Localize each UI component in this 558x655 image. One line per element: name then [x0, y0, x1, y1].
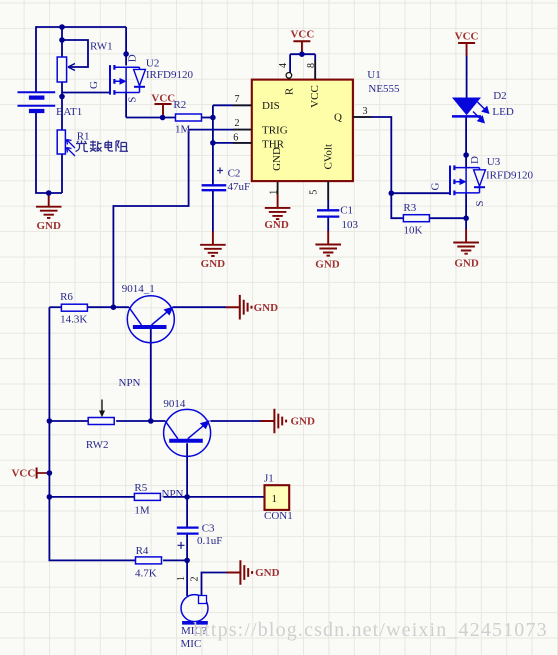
svg-text:0.1uF: 0.1uF: [197, 535, 222, 547]
svg-text:VCC: VCC: [309, 85, 321, 108]
svg-text:10K: 10K: [404, 225, 423, 237]
svg-text:1M: 1M: [175, 123, 191, 135]
svg-text:NPN: NPN: [162, 488, 184, 500]
svg-text:U3: U3: [487, 156, 501, 168]
svg-text:Q: Q: [334, 112, 342, 124]
svg-text:C1: C1: [340, 205, 353, 217]
svg-text:GND: GND: [36, 220, 61, 232]
svg-text:LED: LED: [492, 106, 513, 118]
svg-text:VCC: VCC: [151, 92, 175, 104]
svg-text:CON1: CON1: [264, 510, 293, 522]
svg-text:DIS: DIS: [262, 100, 280, 112]
svg-text:9014_1: 9014_1: [122, 283, 155, 295]
svg-text:https://blog.csdn.net/weixin_4: https://blog.csdn.net/weixin_42451073: [193, 619, 548, 641]
svg-text:R6: R6: [60, 291, 73, 303]
svg-text:5: 5: [308, 190, 319, 195]
svg-text:RW1: RW1: [90, 41, 113, 53]
svg-text:1: 1: [176, 576, 187, 581]
svg-text:CVolt: CVolt: [322, 144, 334, 169]
svg-text:GND: GND: [201, 258, 226, 270]
svg-text:D: D: [469, 156, 481, 164]
svg-text:TRIG: TRIG: [262, 124, 288, 136]
svg-text:C3: C3: [202, 522, 215, 534]
svg-text:NE555: NE555: [368, 83, 400, 95]
svg-text:14.3K: 14.3K: [60, 314, 87, 326]
svg-text:D2: D2: [493, 90, 506, 102]
svg-text:R: R: [284, 87, 296, 95]
svg-text:U2: U2: [146, 58, 159, 70]
svg-text:R5: R5: [134, 482, 147, 494]
svg-text:VCC: VCC: [11, 468, 35, 480]
svg-text:IRFD9120: IRFD9120: [486, 170, 534, 182]
svg-text:IRFD9120: IRFD9120: [146, 69, 194, 81]
svg-text:G: G: [430, 182, 442, 190]
svg-text:VCC: VCC: [455, 31, 479, 43]
svg-text:VCC: VCC: [290, 29, 314, 41]
svg-text:3: 3: [363, 106, 368, 117]
svg-text:D: D: [127, 54, 139, 62]
svg-text:4: 4: [278, 63, 289, 68]
svg-text:GND: GND: [454, 257, 479, 269]
svg-text:BAT1: BAT1: [56, 106, 82, 118]
svg-text:6: 6: [233, 133, 238, 144]
svg-text:GND: GND: [254, 302, 279, 314]
svg-text:R4: R4: [136, 545, 149, 557]
svg-text:GND: GND: [255, 567, 280, 579]
svg-text:G: G: [88, 81, 100, 89]
svg-text:1M: 1M: [134, 504, 150, 516]
svg-text:S: S: [127, 97, 139, 103]
svg-text:GND: GND: [291, 416, 316, 428]
svg-text:2: 2: [189, 577, 200, 582]
svg-text:R1: R1: [77, 131, 90, 143]
svg-text:R3: R3: [403, 202, 416, 214]
svg-text:GND: GND: [271, 147, 283, 171]
svg-text:7: 7: [235, 94, 240, 105]
svg-text:1: 1: [268, 190, 279, 195]
svg-text:S: S: [474, 200, 486, 206]
svg-text:J1: J1: [264, 472, 274, 484]
svg-text:NPN: NPN: [119, 377, 141, 389]
svg-text:U1: U1: [367, 69, 380, 81]
svg-text:2: 2: [235, 118, 240, 129]
svg-text:47uF: 47uF: [228, 181, 251, 193]
svg-text:1: 1: [272, 493, 278, 505]
svg-text:8: 8: [306, 63, 317, 68]
svg-text:R2: R2: [173, 99, 186, 111]
svg-text:GND: GND: [264, 219, 289, 231]
svg-text:9014: 9014: [163, 398, 186, 410]
svg-text:GND: GND: [315, 259, 340, 271]
svg-text:RW2: RW2: [86, 439, 109, 451]
svg-text:103: 103: [342, 219, 359, 231]
svg-text:4.7K: 4.7K: [135, 567, 157, 579]
svg-text:C2: C2: [228, 168, 241, 180]
